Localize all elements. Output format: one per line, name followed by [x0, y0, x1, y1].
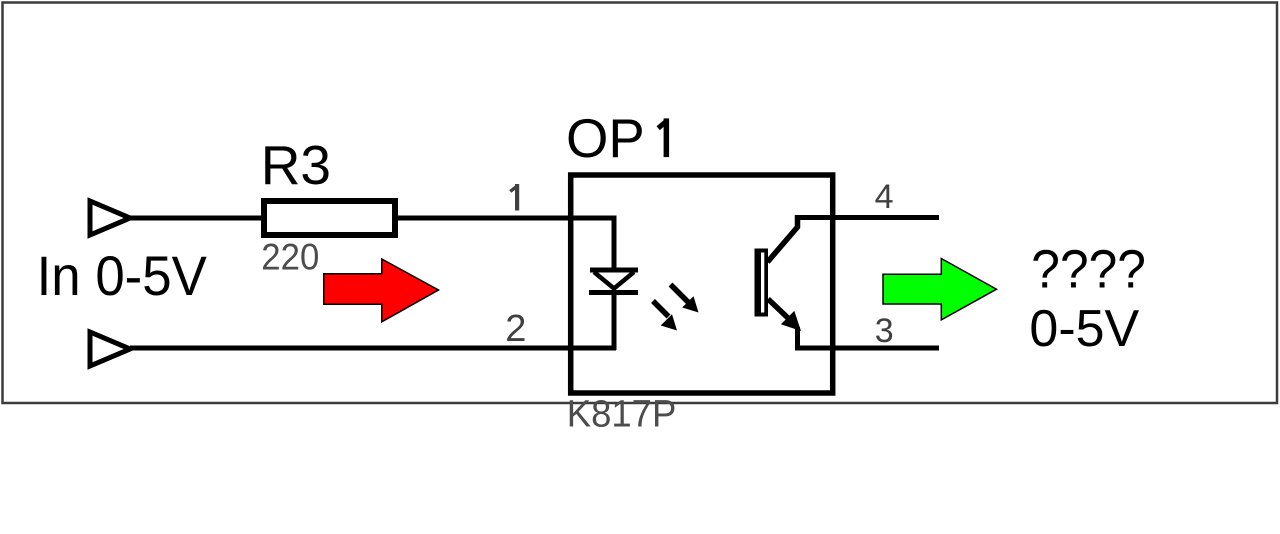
- wire LED cathode down: [612, 292, 617, 350]
- svg-text:????: ????: [1031, 239, 1146, 299]
- border frame: [3, 3, 1278, 404]
- LED cathode bar: [589, 290, 638, 295]
- pin number 1: [510, 184, 519, 211]
- red arrow: [324, 259, 439, 322]
- optocoupler OP1 box: [571, 175, 833, 393]
- light emission arrow upper: [671, 285, 699, 313]
- wire pin1 inside: [571, 216, 617, 271]
- value 220: [261, 236, 319, 277]
- svg-text:3: 3: [875, 312, 894, 350]
- resistor R3: [264, 201, 395, 235]
- wire OP1 pin4: [795, 215, 939, 220]
- wire input1 to R3: [130, 216, 263, 221]
- svg-text:2: 2: [505, 308, 526, 350]
- phototransistor base bar: [755, 249, 769, 317]
- wire R3 to OP1 pin1: [395, 216, 571, 221]
- svg-text:In 0-5V: In 0-5V: [37, 246, 207, 308]
- LED anode bar: [590, 268, 638, 273]
- label ????: [1031, 239, 1146, 299]
- label OP1: [566, 108, 669, 169]
- green arrow: [883, 259, 997, 320]
- phototransistor emitter: [768, 299, 801, 351]
- LED triangle: [594, 272, 634, 289]
- wire input2 to OP1 pin2: [130, 346, 616, 351]
- svg-text:4: 4: [875, 178, 894, 216]
- svg-text:0-5V: 0-5V: [1029, 300, 1139, 358]
- value K817P: [567, 392, 676, 435]
- pin number 4: [875, 178, 894, 216]
- light emission arrow lower: [653, 301, 677, 331]
- terminal input 1: [90, 201, 130, 235]
- wire OP1 pin3: [795, 346, 939, 351]
- label 0-5V: [1029, 300, 1139, 358]
- pin number 3: [875, 312, 894, 350]
- svg-text:220: 220: [261, 236, 319, 277]
- label In 0-5V: [37, 246, 207, 308]
- svg-text:R3: R3: [261, 134, 331, 196]
- pin number 2: [505, 308, 526, 350]
- label R3: [261, 134, 331, 196]
- svg-text:K817P: K817P: [567, 392, 676, 435]
- terminal input 2: [90, 332, 130, 366]
- phototransistor collector: [768, 215, 798, 262]
- svg-text:OP: OP: [566, 108, 645, 169]
